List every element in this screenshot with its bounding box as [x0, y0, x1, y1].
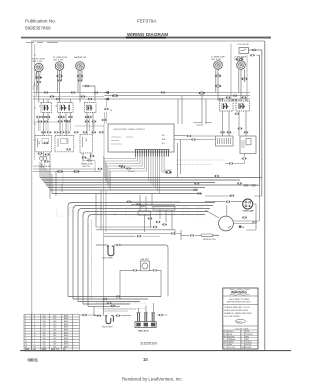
svg-text:11: 11	[25, 344, 27, 346]
junction wire row mid	[33, 122, 104, 126]
wire below B3	[83, 153, 91, 162]
infinite switch S2	[58, 103, 74, 113]
wire stubs bus to switches	[44, 99, 247, 103]
wire sensor run left c	[143, 235, 161, 237]
svg-text:AWG: AWG	[64, 329, 69, 332]
connector on bus 3	[199, 92, 205, 94]
svg-text:150: 150	[43, 321, 46, 323]
svg-text:7: 7	[25, 332, 26, 334]
bus wire L2	[105, 95, 251, 97]
connector below S3	[85, 116, 90, 118]
connector SU3 branch	[85, 85, 90, 87]
svg-text:WHITE (WH) STRIPE WITH: WHITE (WH) STRIPE WITH	[224, 310, 248, 312]
door switch P.DOOR SW	[239, 48, 249, 54]
left drop wires to bundle	[40, 162, 52, 194]
svg-text:P1: P1	[55, 105, 57, 107]
wire motor top	[205, 205, 227, 218]
wire gauge table	[24, 314, 79, 351]
connector right of S4	[226, 97, 231, 99]
svg-text:150: 150	[43, 338, 46, 340]
svg-text:105°: 105°	[53, 318, 57, 320]
wire terminal right	[158, 314, 163, 316]
svg-text:12: 12	[25, 346, 27, 348]
wire SU4 drop	[216, 70, 218, 102]
svg-text:YL: YL	[223, 347, 225, 349]
connector on SU3 wire	[77, 75, 83, 77]
horizontal wire bundle	[40, 178, 262, 194]
fan motor	[141, 261, 150, 271]
extra connectors row y132	[41, 131, 46, 133]
connector row y132 g	[99, 131, 104, 133]
svg-text:AWG: AWG	[64, 337, 69, 340]
switch S2 inner bars	[62, 105, 70, 111]
mid cluster	[156, 221, 161, 223]
warning box	[223, 288, 258, 349]
oven control connector comb	[136, 150, 169, 157]
dashed vertical mid	[62, 174, 64, 185]
svg-text:FAN MTR: FAN MTR	[141, 258, 150, 261]
left console verticals from top	[50, 169, 62, 199]
svg-text:105°: 105°	[53, 346, 57, 348]
bottom wire bundle	[68, 297, 161, 307]
connector door switch lower	[250, 54, 255, 56]
svg-text:105°: 105°	[53, 327, 57, 329]
svg-text:BK —: BK —	[162, 135, 167, 137]
fanned wires from control comb	[104, 157, 172, 194]
infinite switch S4	[220, 101, 234, 111]
svg-text:105°: 105°	[53, 321, 57, 323]
svg-text:NO.: NO.	[63, 349, 67, 351]
svg-text:BKE ELMNT: BKE ELMNT	[102, 327, 114, 329]
wire SU2 drop	[58, 71, 62, 103]
connector row y132 d	[74, 131, 79, 133]
connector below S4	[220, 131, 225, 133]
svg-text:WARNING: WARNING	[231, 290, 247, 294]
connector bundle b	[74, 170, 80, 172]
wire right bend down	[205, 185, 262, 196]
svg-text:AWG: AWG	[64, 334, 69, 337]
svg-text:150: 150	[43, 341, 46, 343]
mid network box b	[153, 207, 175, 211]
svg-text:105°: 105°	[53, 332, 57, 334]
connector on SU5 wire	[242, 78, 248, 80]
bake element	[106, 316, 113, 324]
svg-text:ORANGE: ORANGE	[228, 338, 237, 341]
wire bundle to elements	[94, 299, 104, 316]
warning divider 2	[223, 303, 258, 305]
mid-right connectors	[187, 135, 192, 137]
wire to bake from table side	[82, 314, 87, 316]
svg-text:8: 8	[25, 335, 26, 337]
svg-text:105°: 105°	[53, 315, 57, 317]
header rule bar	[21, 37, 271, 39]
wire lamp plug right	[253, 204, 256, 216]
connector on SU4 wire	[215, 75, 221, 77]
extra bottom lines	[103, 309, 136, 311]
svg-text:08/01: 08/01	[28, 358, 39, 363]
connector row y132 c	[65, 131, 70, 133]
hot surface indicator lamp	[40, 157, 44, 161]
dark connector under comb right	[166, 171, 172, 174]
svg-text:A.C —: A.C —	[162, 142, 167, 145]
connector bundle g	[193, 189, 198, 191]
terminal block pins	[137, 313, 155, 322]
svg-text:2: 2	[25, 318, 26, 320]
switch S4 inner bars	[224, 104, 227, 110]
svg-text:10: 10	[143, 357, 148, 362]
connector motor right a	[242, 217, 247, 219]
diagram frame top edge	[32, 40, 265, 42]
svg-text:AWG: AWG	[64, 345, 69, 348]
dashed wires right of control box	[176, 160, 225, 165]
diagram frame bottom edge	[20, 350, 291, 352]
svg-text:625: 625	[236, 56, 244, 62]
svg-text:AWG: AWG	[64, 320, 69, 323]
connector bottom b	[107, 302, 112, 304]
svg-text:105°: 105°	[53, 341, 57, 343]
svg-text:AWG: AWG	[64, 314, 69, 317]
oven light cluster	[229, 163, 234, 165]
connector bundle f	[195, 183, 200, 185]
connector below B1	[45, 154, 50, 156]
svg-text:J: J	[34, 338, 35, 340]
switch S1 inner bars	[45, 105, 48, 111]
oven lamp plug (4 pin)	[243, 199, 253, 209]
svg-text:BRL ELMNT: BRL ELMNT	[103, 257, 114, 259]
svg-text:5995357869: 5995357869	[25, 26, 51, 31]
svg-text:AWG: AWG	[64, 343, 69, 346]
svg-text:105°: 105°	[53, 335, 57, 337]
svg-text:9: 9	[25, 338, 26, 340]
svg-text:150: 150	[43, 335, 46, 337]
svg-text:UNIT & SW: UNIT & SW	[32, 61, 42, 63]
surface unit SU1 (left front)	[35, 63, 44, 72]
connector on bus 5	[219, 98, 224, 100]
infinite switch S1	[41, 103, 52, 113]
wires left of control box	[104, 112, 107, 159]
svg-text:AWG: AWG	[64, 326, 69, 329]
svg-text:10: 10	[25, 341, 27, 343]
connector P4 under bus	[106, 99, 108, 107]
wire sensor run left a	[104, 233, 170, 235]
svg-text:YELLOW: YELLOW	[228, 347, 236, 349]
connector on bus 2	[161, 92, 166, 94]
bus mid segment	[33, 96, 104, 98]
connector below S5b	[244, 131, 249, 133]
right relay box	[240, 136, 256, 154]
connector below S5	[235, 113, 240, 115]
color code table	[223, 330, 258, 349]
oven control comb base	[135, 149, 170, 151]
wire motor right	[233, 221, 259, 224]
connector right bend c	[226, 201, 231, 203]
svg-text:BLACK: BLACK	[228, 330, 235, 333]
connector row y132 b	[54, 131, 59, 133]
convection motor circle	[219, 216, 234, 231]
svg-text:Rendered by LeadVenture, Inc.: Rendered by LeadVenture, Inc.	[122, 377, 183, 382]
wire left row y169	[33, 168, 96, 170]
connector in B1	[44, 142, 49, 144]
connector right bend a	[251, 184, 256, 186]
right connector header box	[216, 136, 234, 146]
connector motor right b	[252, 222, 257, 224]
wire left margin vertical	[34, 44, 36, 160]
connector below S1	[41, 116, 46, 118]
wire left row y171	[33, 171, 101, 173]
oven control interior dashes	[111, 137, 133, 144]
infinite switch S5	[236, 101, 250, 111]
connector above motor	[237, 182, 242, 184]
svg-text:GN/Y: GN/Y	[237, 321, 243, 323]
wire broil loop	[96, 245, 168, 262]
svg-text:105°: 105°	[53, 338, 57, 340]
svg-text:ELECTRONIC OVEN CONTROL: ELECTRONIC OVEN CONTROL	[114, 129, 146, 131]
wire door switch to right edge down	[249, 50, 262, 196]
connector below relay box	[242, 158, 247, 160]
connector bundle a	[57, 170, 63, 172]
wire top right drop to switches	[231, 44, 247, 102]
oval rows below switches	[36, 116, 41, 118]
connector below S4b	[227, 131, 232, 133]
mid network wires	[128, 194, 180, 233]
svg-text:150: 150	[43, 315, 46, 317]
wire sensor left	[181, 230, 189, 240]
wire drops below switches	[44, 111, 247, 136]
wire gauge table text	[25, 314, 69, 351]
svg-text:WARMER SW: WARMER SW	[74, 56, 86, 59]
right side long verticals	[246, 51, 262, 230]
indicator box B1	[35, 136, 51, 152]
svg-text:TRACED WIRE: ANY COLOR: TRACED WIRE: ANY COLOR	[224, 306, 250, 309]
connector pair above broil	[153, 226, 158, 228]
connector sensor run a	[171, 233, 176, 235]
connector bottom d	[103, 298, 108, 300]
svg-text:▪ P. DOOR SW: ▪ P. DOOR SW	[236, 44, 249, 46]
wire fan	[120, 262, 168, 297]
connector fan left	[133, 269, 138, 271]
svg-text:105°: 105°	[53, 324, 57, 326]
switch S3 inner bars	[88, 105, 91, 111]
diagram frame right edge	[264, 41, 266, 350]
relay inner box	[246, 139, 251, 145]
left console wire bends	[68, 203, 215, 307]
connector bottom c	[111, 305, 116, 307]
indicator box B3	[80, 134, 93, 153]
indicator box B2	[55, 136, 74, 152]
stubs below ovals	[39, 118, 95, 131]
svg-text:4: 4	[25, 324, 26, 326]
connector SU4 lower	[215, 85, 221, 87]
connector mid a	[127, 201, 132, 203]
wire into lamp plug	[205, 201, 243, 203]
svg-text:AWG: AWG	[64, 340, 69, 343]
motor label	[239, 226, 242, 228]
connector bundle h	[197, 193, 202, 195]
warm zone cluster	[82, 157, 87, 159]
svg-text:AWG TYP: AWG TYP	[51, 348, 60, 351]
connector broil right	[116, 244, 121, 246]
dashed console vertical	[91, 220, 93, 300]
svg-text:AWG: AWG	[64, 323, 69, 326]
svg-text:150: 150	[43, 318, 46, 320]
svg-text:3: 3	[25, 321, 26, 323]
surface unit SU3 (warmer)	[76, 62, 85, 71]
surface unit SU4 (right rear)	[214, 61, 223, 70]
diagram frame left edge	[31, 41, 33, 350]
svg-text:AWG: AWG	[64, 317, 69, 320]
bus arrow left	[104, 91, 109, 94]
svg-text:150: 150	[43, 330, 46, 332]
svg-text:YELLOW STRIPE: YELLOW STRIPE	[224, 316, 240, 318]
bus arrow left2	[104, 98, 109, 101]
tiny label row under bar	[26, 42, 58, 44]
connector mid c	[140, 205, 145, 207]
svg-text:Publication No.: Publication No.	[25, 19, 56, 24]
wire pair above broil	[96, 190, 175, 235]
wire SU5 drop	[239, 70, 245, 102]
svg-text:P1: P1	[38, 105, 40, 107]
svg-text:P4: P4	[110, 110, 112, 112]
svg-text:TRML BLCK: TRML BLCK	[138, 330, 150, 332]
connector on SU3 wire 2	[78, 80, 83, 82]
wire below B1	[44, 152, 51, 169]
connector bottom a	[116, 296, 121, 298]
broil element	[108, 246, 114, 255]
svg-text:150: 150	[43, 332, 46, 334]
connectors on left buses	[44, 92, 49, 94]
oven light wire	[225, 154, 244, 164]
bus wire L1	[33, 92, 250, 94]
connector door switch upper	[252, 49, 257, 51]
connector on SU1 wire	[36, 76, 42, 78]
connector on bus 1	[112, 95, 118, 97]
svg-text:5: 5	[25, 327, 26, 329]
svg-text:HOT SURFACE IND: HOT SURFACE IND	[34, 165, 52, 168]
svg-text:WIRE: WIRE	[25, 349, 30, 351]
svg-text:BEFORE SERVICING UNIT: BEFORE SERVICING UNIT	[227, 301, 251, 303]
wire sensor run left b	[104, 234, 181, 237]
wires right of control box	[174, 93, 216, 178]
svg-text:GRAY: GRAY	[228, 343, 234, 346]
dashed bottom lines	[96, 303, 146, 309]
tiny text bottom-left of comb	[128, 170, 135, 172]
svg-text:TEMP: TEMP	[42, 349, 48, 351]
svg-text:105°: 105°	[53, 344, 57, 346]
connector on fan line b	[126, 168, 131, 170]
tiny note text above control box	[193, 123, 212, 126]
connector mid b	[136, 203, 141, 205]
dotted margin line right	[267, 44, 269, 230]
svg-text:150: 150	[43, 327, 46, 329]
connector bake left	[97, 315, 102, 317]
connector row y132 f	[92, 131, 97, 133]
connector on fan line a	[119, 165, 124, 167]
svg-text:105°: 105°	[53, 330, 57, 332]
svg-text:SENSOR ROD: SENSOR ROD	[203, 239, 216, 241]
svg-text:6: 6	[25, 330, 26, 332]
connector row y132 a	[47, 131, 52, 133]
svg-text:150: 150	[43, 324, 46, 326]
connector on SU2 wire 2	[57, 80, 62, 82]
svg-text:1: 1	[25, 315, 26, 317]
connector below S2b	[64, 120, 69, 122]
svg-text:L: L	[34, 344, 35, 346]
svg-text:FEF379A: FEF379A	[137, 19, 157, 24]
connector bundle e	[215, 175, 220, 177]
mid network box a	[138, 211, 151, 215]
svg-text:EXAMPLE: GREEN WIRE WITH: EXAMPLE: GREEN WIRE WITH	[224, 312, 252, 315]
connector on SU2 wire	[57, 75, 63, 77]
warning GN/Y oval	[235, 319, 245, 323]
svg-text:150: 150	[43, 346, 46, 348]
svg-text:WH/BK: WH/BK	[245, 347, 252, 349]
warning divider 1	[223, 295, 258, 297]
svg-text:IND LTR: IND LTR	[83, 166, 91, 168]
connector fan right	[153, 269, 158, 271]
connector right bend b	[230, 195, 235, 197]
infinite switch S3	[85, 103, 97, 113]
bus wire N	[33, 98, 250, 100]
svg-text:OVEN LAMP: OVEN LAMP	[243, 210, 255, 213]
svg-text:UNIT & SW: UNIT & SW	[53, 60, 63, 62]
connector in B2	[66, 148, 71, 150]
wire bake right	[121, 315, 131, 317]
console vertical extra	[104, 156, 107, 310]
connector on SU1 wire 2	[37, 81, 42, 83]
connector bundle d	[121, 166, 126, 168]
svg-text:316255109: 316255109	[140, 341, 157, 345]
connector row y132 e	[83, 131, 88, 133]
connector bundle c	[98, 168, 103, 170]
switch S5 inner bars	[240, 104, 243, 110]
connector below S2	[58, 116, 63, 118]
connector on bus 4	[233, 95, 238, 97]
svg-text:150: 150	[43, 344, 46, 346]
svg-text:WIRING DIAGRAM: WIRING DIAGRAM	[127, 32, 168, 37]
wire SU1 drop	[37, 72, 39, 103]
svg-text:AWG: AWG	[64, 331, 69, 334]
warning divider 3	[223, 325, 258, 327]
wire SU1 diagonals	[33, 71, 40, 96]
connector bake right	[116, 315, 121, 317]
terminal block body	[135, 322, 156, 328]
surface unit SU5 (right front)	[237, 61, 246, 70]
electronic oven control box	[108, 124, 174, 152]
wire SU3 branch	[82, 86, 95, 101]
oven sensor probe	[190, 234, 195, 236]
connector sensor run b	[137, 235, 142, 237]
wire SU3 drop	[78, 71, 82, 103]
svg-text:BRL —: BRL —	[162, 139, 168, 141]
surface unit SU2 (left rear)	[55, 62, 64, 71]
